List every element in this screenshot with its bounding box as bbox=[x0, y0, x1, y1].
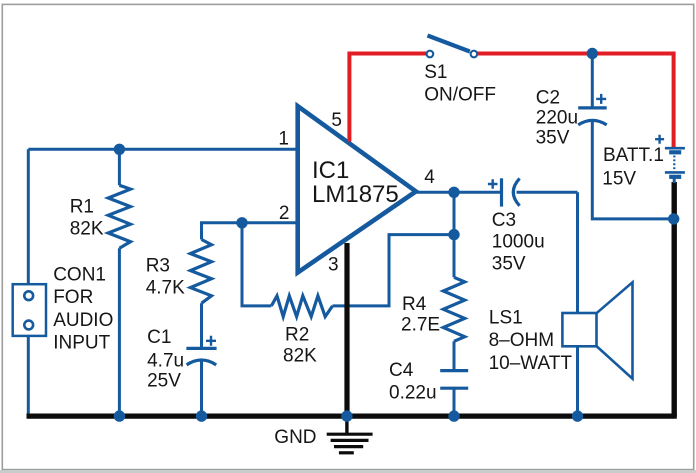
svg-text:1000u: 1000u bbox=[492, 232, 545, 253]
svg-text:3: 3 bbox=[328, 255, 339, 276]
svg-text:0.22u: 0.22u bbox=[389, 382, 437, 403]
svg-text:R1: R1 bbox=[70, 197, 94, 218]
node input/R1 junction bbox=[114, 144, 125, 155]
svg-text:35V: 35V bbox=[536, 127, 570, 148]
wire R2 right to feedback riser bbox=[333, 235, 455, 306]
svg-text:2: 2 bbox=[279, 203, 290, 224]
connector CON1 bbox=[13, 284, 46, 336]
battery BATT.1 bbox=[665, 147, 685, 150]
op-amp IC1 LM1875 triangle bbox=[298, 106, 416, 272]
resistor R1 bbox=[108, 185, 130, 248]
wire R3 to C1 bbox=[200, 303, 203, 348]
svg-text:35V: 35V bbox=[492, 253, 526, 274]
wire battery negative vertical (black) bbox=[672, 182, 677, 417]
svg-text:CON1: CON1 bbox=[53, 264, 106, 285]
wire R1 bottom lead bbox=[118, 248, 121, 416]
svg-text:25V: 25V bbox=[147, 371, 181, 392]
capacitor C3 bbox=[500, 178, 503, 206]
switch S1 left contact bbox=[427, 51, 434, 58]
node rail/GND junction bbox=[341, 410, 352, 421]
svg-text:2.7E: 2.7E bbox=[401, 315, 440, 336]
svg-text:C4: C4 bbox=[389, 360, 414, 381]
node feedback/R4 junction bbox=[448, 229, 459, 240]
svg-text:4.7K: 4.7K bbox=[146, 278, 185, 299]
wire C4 to rail bbox=[453, 388, 456, 416]
switch S1 right contact bbox=[471, 51, 478, 58]
capacitor C2 bbox=[578, 106, 607, 109]
svg-text:4: 4 bbox=[424, 167, 435, 188]
resistor R3 bbox=[190, 240, 211, 304]
svg-text:4.7u: 4.7u bbox=[147, 351, 184, 372]
svg-text:C1: C1 bbox=[147, 327, 171, 348]
speaker LS1 bbox=[562, 313, 596, 346]
wire red pin 5 supply riser bbox=[349, 54, 426, 142]
wire pin4 node down to R4 bbox=[453, 192, 456, 277]
wire pin 3 to ground rail (black) bbox=[344, 243, 349, 417]
ground symbol bbox=[345, 416, 348, 434]
svg-text:LS1: LS1 bbox=[489, 308, 523, 329]
svg-text:5: 5 bbox=[331, 110, 342, 131]
wire R1 top lead bbox=[118, 149, 121, 185]
wire pin 2 horizontal bbox=[242, 221, 299, 224]
wire C2 top lead bbox=[591, 54, 594, 108]
switch S1 lever bbox=[428, 36, 470, 52]
svg-text:10–WATT: 10–WATT bbox=[489, 353, 573, 374]
svg-text:FOR: FOR bbox=[53, 287, 93, 308]
wire C3 to speaker branch bbox=[517, 191, 578, 194]
node pin2/R3/R2 junction bbox=[236, 217, 247, 228]
svg-text:220u: 220u bbox=[536, 108, 578, 129]
wire C2 bottom to battery negative bbox=[592, 121, 673, 219]
svg-text:C3: C3 bbox=[492, 210, 516, 231]
node pin4/C3/R4 junction bbox=[448, 187, 459, 198]
svg-text:GND: GND bbox=[274, 427, 316, 448]
svg-text:BATT.1: BATT.1 bbox=[603, 145, 664, 166]
resistor R2 bbox=[271, 296, 332, 317]
svg-text:8–OHM: 8–OHM bbox=[489, 330, 554, 351]
svg-text:82K: 82K bbox=[283, 346, 317, 367]
svg-text:82K: 82K bbox=[70, 218, 104, 239]
wire pin 4 output bbox=[414, 191, 454, 194]
capacitor C4 bbox=[440, 369, 468, 372]
wire ground rail bbox=[27, 414, 677, 419]
wire speaker vertical bbox=[576, 192, 579, 416]
wire left vertical to CON1 bbox=[27, 149, 30, 285]
wire node to R2 vertical bbox=[242, 223, 271, 306]
capacitor C1 bbox=[186, 347, 216, 350]
wire CON1 to ground rail bbox=[27, 336, 30, 416]
node rail/C1 junction bbox=[196, 410, 207, 421]
wire C1 bottom lead bbox=[200, 361, 203, 416]
node supply/C2 junction bbox=[587, 48, 598, 59]
svg-text:LM1875: LM1875 bbox=[312, 181, 399, 208]
svg-text:INPUT: INPUT bbox=[53, 332, 110, 353]
node rail/R1 junction bbox=[114, 410, 125, 421]
svg-text:AUDIO: AUDIO bbox=[53, 310, 113, 331]
svg-text:S1: S1 bbox=[424, 62, 447, 83]
svg-text:ON/OFF: ON/OFF bbox=[424, 85, 496, 106]
wire pin4 node to C3 bbox=[454, 191, 500, 194]
wire input top horizontal to pin 1 bbox=[28, 148, 299, 151]
node rail/C4 junction bbox=[448, 410, 459, 421]
wire red supply rail to battery positive bbox=[477, 54, 673, 149]
svg-text:C2: C2 bbox=[536, 88, 560, 109]
svg-text:R2: R2 bbox=[285, 325, 309, 346]
node C2/battery junction bbox=[668, 213, 679, 224]
svg-text:R4: R4 bbox=[402, 294, 427, 315]
wire R4 to C4 bbox=[453, 341, 456, 370]
svg-text:R3: R3 bbox=[146, 256, 170, 277]
svg-text:15V: 15V bbox=[602, 169, 636, 190]
svg-text:IC1: IC1 bbox=[312, 157, 349, 184]
resistor R4 bbox=[443, 277, 464, 341]
wire R3 top lead and horizontal to node bbox=[202, 223, 243, 240]
node rail/speaker junction bbox=[572, 410, 583, 421]
svg-text:1: 1 bbox=[278, 129, 289, 150]
